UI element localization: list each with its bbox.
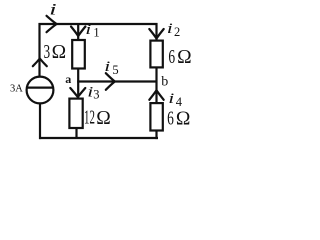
current source 3A: [27, 77, 54, 104]
wire right upper: [155, 23, 157, 41]
wire middle branch between R1 and R3: [77, 69, 79, 99]
arrow i4 up: [149, 90, 163, 100]
resistor R2 6ohm top right: [150, 41, 162, 68]
arrow i3 down: [70, 88, 85, 97]
svg-text:Ω: Ω: [96, 108, 111, 129]
resistor R3 12ohm: [69, 99, 82, 128]
svg-text:6: 6: [168, 46, 175, 68]
svg-text:a: a: [65, 72, 71, 86]
svg-text:5: 5: [112, 63, 118, 77]
wire right middle: [155, 68, 157, 103]
wire middle branch upper: [77, 23, 79, 40]
svg-text:i: i: [104, 58, 110, 75]
wire left upper: [38, 23, 40, 77]
svg-text:6: 6: [167, 107, 174, 129]
svg-text:Ω: Ω: [177, 47, 192, 68]
svg-text:b: b: [161, 75, 168, 90]
current source arrow up: [33, 59, 47, 67]
wire middle horizontal node a to node b: [77, 80, 157, 82]
wire left lower: [39, 103, 41, 139]
svg-text:4: 4: [176, 95, 183, 109]
svg-text:12: 12: [84, 107, 95, 128]
svg-text:i: i: [85, 21, 91, 38]
arrow i2 down: [149, 29, 163, 39]
svg-text:3: 3: [44, 40, 51, 62]
wire stub below R3: [75, 129, 77, 140]
arrow i on top wire: [47, 16, 57, 32]
wire right stub bottom: [155, 131, 157, 139]
svg-text:3: 3: [93, 88, 99, 102]
svg-text:Ω: Ω: [52, 42, 67, 63]
svg-text:i: i: [49, 0, 57, 18]
svg-text:i: i: [167, 20, 173, 37]
resistor R4 6ohm bottom right: [150, 103, 162, 130]
svg-text:2: 2: [174, 25, 180, 39]
svg-text:3A: 3A: [10, 83, 23, 94]
svg-text:Ω: Ω: [176, 108, 191, 129]
svg-text:i: i: [168, 90, 174, 107]
arrow i1 down: [71, 27, 85, 37]
resistor R1 3ohm: [72, 40, 85, 69]
svg-text:1: 1: [93, 26, 99, 40]
wire bottom: [39, 137, 158, 139]
arrow i5 right: [106, 73, 115, 90]
wire top: [39, 23, 158, 25]
